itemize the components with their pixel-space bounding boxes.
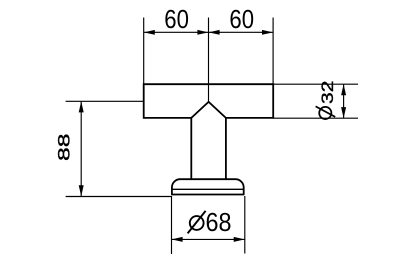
arrow left-outward at x=143.7 <box>144 30 155 35</box>
label Ø32 diameter symbol <box>319 107 331 119</box>
top dim line <box>144 31 273 33</box>
right dim Ø32: bottom extension line <box>273 117 358 119</box>
arrow left-outward at (171.5,239.4) <box>172 237 183 242</box>
bottom dim Ø68: right extension line <box>244 196 246 254</box>
T-handle body outline <box>144 84 274 118</box>
top dim: left extension line <box>143 18 145 85</box>
svg-text:88: 88 <box>55 134 74 162</box>
left dim 88: top extension line <box>66 100 144 102</box>
right dim Ø32: top extension line <box>273 83 358 85</box>
flange band line <box>172 188 244 190</box>
bottom dim Ø68: dim line <box>172 238 245 240</box>
left dim 88: dim line <box>80 101 82 196</box>
svg-text:32: 32 <box>319 80 337 104</box>
top dim: right extension line <box>272 18 274 85</box>
label Ø68 diameter symbol <box>190 216 204 230</box>
arrow right at center (left 60 dim) <box>197 30 208 35</box>
base flange outline <box>172 179 244 194</box>
arrow down at (81.2,196.4) <box>79 185 84 196</box>
svg-text:60: 60 <box>164 4 189 34</box>
arrow up at (343.6,84.2) <box>341 84 346 95</box>
arrow right-outward at x=273.1 <box>262 30 273 35</box>
right dim Ø32: dim line <box>343 84 345 118</box>
arrow left at center (right 60 dim) <box>209 30 220 35</box>
arrow up at (81.2,101.3) <box>79 101 84 112</box>
stem left line <box>190 118 192 179</box>
bottom dim Ø68: left extension line <box>171 196 173 254</box>
top dim: center line (to V peak) <box>208 18 210 102</box>
stem right line <box>225 118 227 179</box>
arrow right-outward at (244.8,239.4) <box>234 237 245 242</box>
svg-text:68: 68 <box>206 207 232 237</box>
svg-text:60: 60 <box>229 4 254 34</box>
arrow down at (343.6,118.2) <box>341 107 346 118</box>
left dim 88: bottom extension line <box>66 196 172 198</box>
